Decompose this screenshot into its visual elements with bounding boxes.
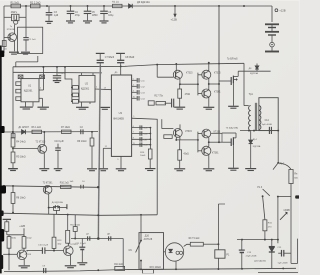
svg-text:2: 2 xyxy=(40,88,41,90)
svg-text:5: 5 xyxy=(133,79,134,81)
svg-text:4μФ+400В: 4μФ+400В xyxy=(262,123,273,126)
svg-text:10кΩ: 10кΩ xyxy=(26,237,31,239)
svg-text:КД213А: КД213А xyxy=(253,145,261,148)
svg-text:С8 68нФ: С8 68нФ xyxy=(125,56,134,59)
svg-text:100μ: 100μ xyxy=(108,15,114,17)
svg-text:КТ361: КТ361 xyxy=(212,152,219,154)
svg-text:КТ315: КТ315 xyxy=(185,131,192,133)
svg-text:R8 18кΩ: R8 18кΩ xyxy=(16,197,25,200)
svg-text:С14: С14 xyxy=(265,120,270,122)
svg-text:Д4 КД105Б: Д4 КД105Б xyxy=(52,202,64,204)
svg-text:Д6 КД212А: Д6 КД212А xyxy=(137,1,150,4)
svg-text:4: 4 xyxy=(133,85,134,87)
svg-text:470μ: 470μ xyxy=(75,15,81,17)
svg-text:3кΩ: 3кΩ xyxy=(57,244,61,246)
svg-text:+12В: +12В xyxy=(279,9,286,13)
svg-text:R1 5кΩ: R1 5кΩ xyxy=(11,1,19,4)
svg-text:С10 0.1μФ: С10 0.1μФ xyxy=(38,243,48,246)
svg-text:Т3 КТ361: Т3 КТ361 xyxy=(43,183,54,185)
svg-text:3: 3 xyxy=(133,91,134,93)
svg-text:Тр1: Тр1 xyxy=(249,93,254,96)
svg-text:R7 10кΩ: R7 10кΩ xyxy=(61,127,70,129)
svg-text:R5 2Ω: R5 2Ω xyxy=(112,1,119,4)
svg-text:+12В: +12В xyxy=(19,225,25,228)
svg-text:Д16: Д16 xyxy=(145,236,150,238)
svg-text:7: 7 xyxy=(133,132,134,134)
svg-text:2кΩ: 2кΩ xyxy=(3,49,7,51)
svg-text:Тр ВЛ/№5: Тр ВЛ/№5 xyxy=(227,57,238,60)
svg-text:КТ315: КТ315 xyxy=(214,72,221,74)
svg-text:10кΩ: 10кΩ xyxy=(140,155,145,157)
svg-text:С10 1μФ: С10 1μФ xyxy=(54,140,63,143)
svg-text:1кΩ: 1кΩ xyxy=(70,181,74,183)
svg-text:105М: 105М xyxy=(92,15,98,17)
svg-text:11: 11 xyxy=(133,143,135,145)
svg-text:R4 24кΩ: R4 24кΩ xyxy=(16,141,25,144)
svg-text:6Н61НЕВ: 6Н61НЕВ xyxy=(113,118,124,121)
svg-text:КТ361: КТ361 xyxy=(214,91,221,93)
svg-text:КТ315: КТ315 xyxy=(25,254,32,256)
svg-text:R2 2.2кΩ: R2 2.2кΩ xyxy=(30,1,40,4)
svg-text:КД1561: КД1561 xyxy=(24,89,33,92)
svg-text:АОТ128: АОТ128 xyxy=(144,238,153,241)
svg-text:КД213А: КД213А xyxy=(250,72,258,75)
svg-text:С7 68нФ: С7 68нФ xyxy=(105,56,114,59)
svg-text:5μФ+450В: 5μФ+450В xyxy=(278,262,288,265)
svg-text:КД1561: КД1561 xyxy=(81,87,90,90)
svg-text:R17 75к: R17 75к xyxy=(154,95,163,97)
svg-text:R6 1.2кΩ: R6 1.2кΩ xyxy=(32,127,42,129)
svg-text:R5 18кΩ: R5 18кΩ xyxy=(16,156,25,159)
svg-text:43кΩ: 43кΩ xyxy=(183,154,189,156)
svg-text:Д15 КД105Б: Д15 КД105Б xyxy=(254,260,266,262)
svg-text:2: 2 xyxy=(96,87,97,89)
svg-text:С11 1.5μФ: С11 1.5μФ xyxy=(75,242,86,245)
svg-text:R12 43кΩ: R12 43кΩ xyxy=(70,224,80,226)
svg-text:48кГц: 48кГц xyxy=(11,11,18,14)
svg-text:Д1 АР007: Д1 АР007 xyxy=(19,126,30,129)
svg-text:500к: 500к xyxy=(11,237,16,239)
svg-text:U3: U3 xyxy=(119,111,123,115)
svg-text:R14 2кΩ: R14 2кΩ xyxy=(114,264,123,266)
svg-text:R10 2кΩ: R10 2кΩ xyxy=(60,183,69,185)
svg-text:+12В: +12В xyxy=(171,18,178,22)
svg-text:R15 100кΩ: R15 100кΩ xyxy=(150,267,162,269)
svg-text:1μФ: 1μФ xyxy=(54,14,59,17)
svg-text:470Ω: 470Ω xyxy=(185,94,191,96)
svg-text:КТ361Б: КТ361Б xyxy=(7,29,15,31)
svg-text:Р1.3: Р1.3 xyxy=(257,187,262,189)
svg-text:6: 6 xyxy=(133,126,134,128)
svg-text:КТ315: КТ315 xyxy=(186,72,193,74)
svg-text:10: 10 xyxy=(133,97,135,99)
svg-text:<200В: <200В xyxy=(283,209,290,212)
svg-text:22μФ+450В: 22μФ+450В xyxy=(246,254,257,257)
svg-text:С1 1н0: С1 1н0 xyxy=(28,39,36,41)
svg-text:Т5 (КД213Б): Т5 (КД213Б) xyxy=(226,127,239,129)
svg-text:8: 8 xyxy=(133,138,134,140)
svg-text:R17 5.1кΩ: R17 5.1кΩ xyxy=(189,238,200,240)
svg-text:R9 10кΩ: R9 10кΩ xyxy=(77,140,86,143)
